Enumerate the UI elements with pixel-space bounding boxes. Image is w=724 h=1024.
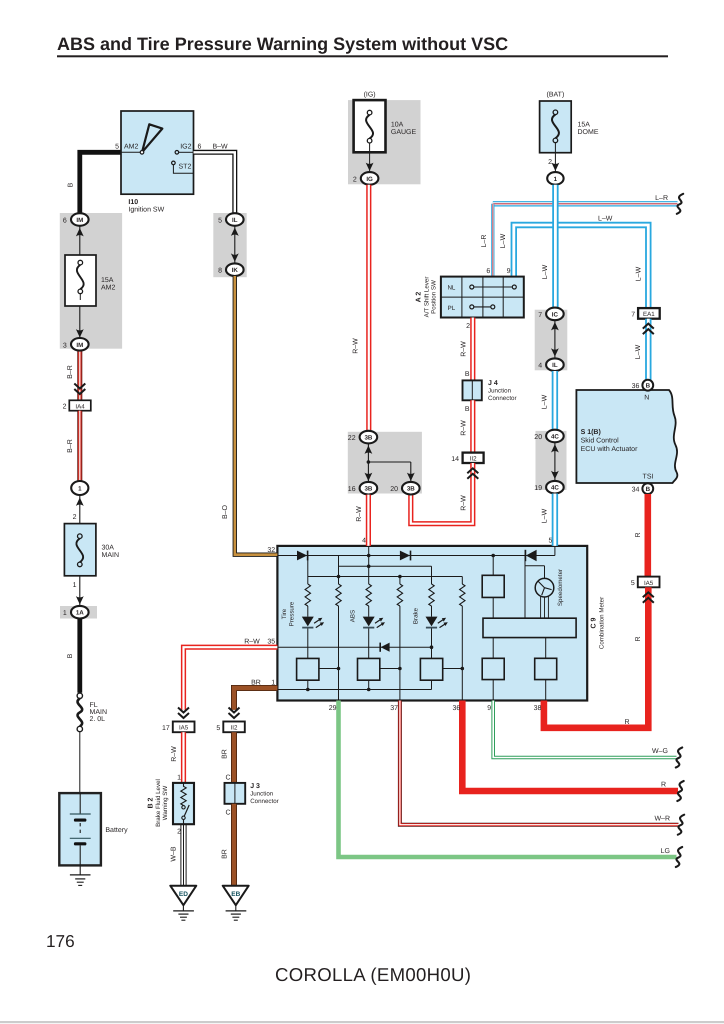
svg-text:I10: I10 [128, 199, 138, 206]
label J3 Junction Connector [250, 783, 279, 805]
svg-text:II2: II2 [470, 456, 477, 463]
svg-text:ST2: ST2 [179, 164, 192, 171]
wire B-R from 3 IM to connector IA4 [77, 351, 82, 401]
driver box ABS [358, 658, 380, 680]
connector oval 8 IK [218, 263, 244, 276]
svg-text:ABS and Tire Pressure Warning: ABS and Tire Pressure Warning System wit… [57, 34, 508, 54]
svg-text:COROLLA (EM00H0U): COROLLA (EM00H0U) [275, 964, 471, 985]
svg-text:R: R [661, 782, 666, 789]
arrowhead down above IG oval [366, 163, 374, 171]
double arrow between IL and IK [231, 226, 239, 264]
svg-text:1: 1 [73, 582, 77, 589]
svg-text:C: C [225, 810, 230, 817]
gray highlight box around 4C connectors [536, 431, 567, 490]
skid control ECU S1(B) body with torn right edge [576, 390, 677, 483]
ABS right column [399, 577, 401, 701]
small box above pin 38 [535, 658, 557, 679]
svg-text:22: 22 [348, 435, 356, 442]
svg-text:DOME: DOME [578, 129, 599, 136]
svg-text:R–W: R–W [352, 338, 359, 354]
wire R thick red from 5 IA5 down left and up to meter pin 38 [544, 587, 648, 728]
svg-text:3B: 3B [364, 486, 372, 493]
wire R-W from IG oval down to 22 3B [366, 185, 371, 431]
svg-text:(IG): (IG) [364, 91, 376, 99]
wire R-W from A2 pin2 down to J4 [470, 318, 475, 381]
brake fluid level warning switch B2 body [173, 783, 194, 824]
svg-text:IG2: IG2 [180, 144, 191, 151]
speedometer output lines [541, 596, 549, 618]
break squiggle R [677, 781, 683, 801]
wire R-W from 17 IA5 down to B2 [181, 732, 186, 783]
diode D2 on top rail [400, 551, 411, 561]
junction connector J3 [225, 783, 246, 804]
svg-text:19: 19 [534, 485, 542, 492]
svg-text:A/T Shift Lever: A/T Shift Lever [424, 277, 431, 318]
connector oval 22 3B [348, 431, 377, 444]
wire BR from 5 II2 down to J3 [231, 732, 237, 783]
meter internal: pin 4 lead-in [368, 546, 370, 556]
fusible link FL MAIN 2.0L symbol [77, 693, 82, 732]
svg-text:B: B [67, 653, 74, 658]
bottom page rule [0, 1021, 724, 1023]
pin 35 internal line with diode D4 [277, 643, 433, 652]
svg-text:R–W: R–W [460, 495, 467, 511]
svg-text:5: 5 [548, 538, 552, 545]
tire pressure branch column [307, 556, 309, 690]
svg-text:2: 2 [466, 323, 470, 330]
connector oval 4 IL [538, 358, 564, 371]
svg-text:EB: EB [231, 891, 240, 898]
svg-text:IM: IM [76, 217, 83, 224]
ground symbol below EB [226, 905, 247, 920]
wire B thick black from ignition SW pin5 to connector IM [80, 152, 121, 213]
label FL MAIN 2. 0L [90, 702, 108, 723]
svg-text:L–W: L–W [635, 344, 642, 359]
svg-text:B: B [646, 383, 651, 390]
svg-text:J 4: J 4 [488, 380, 498, 387]
key lever symbol inside I10 [142, 124, 162, 152]
driver box tire pressure [297, 658, 319, 680]
connector oval 5 IL [218, 213, 244, 226]
svg-text:ABS: ABS [350, 610, 357, 622]
small box right branch [482, 575, 504, 597]
round connector 1 [71, 481, 88, 495]
label J4 Junction Connector [488, 380, 517, 402]
svg-text:BR: BR [222, 749, 229, 759]
svg-text:R–W: R–W [460, 341, 467, 357]
wire R-W from meter pin 35 left and down to 17 IA5 [184, 647, 278, 710]
title underline rule [57, 55, 668, 57]
wire L-W from IL down to 20 4C [552, 371, 558, 430]
wire L-R horizontal from A2 pin6 corner to break [493, 201, 678, 206]
link brake box to right column [443, 667, 464, 671]
double arrow between IC and IL [551, 320, 559, 358]
svg-text:B 2: B 2 [148, 797, 155, 808]
double chevron down above 17 IA5 [178, 708, 189, 719]
svg-text:ED: ED [179, 891, 188, 898]
break squiggle at L-R end [677, 194, 683, 214]
component label A2 rotated [416, 277, 438, 318]
wire thin black connector1 to 30A MAIN [79, 495, 81, 524]
svg-text:Warning SW: Warning SW [162, 786, 169, 821]
break squiggle W-G [676, 748, 682, 768]
double chevron up below EA1 [643, 324, 654, 335]
LED brake [426, 617, 448, 628]
svg-text:BR: BR [222, 849, 229, 859]
meter internal: second rail [339, 556, 432, 585]
svg-text:32: 32 [267, 547, 275, 554]
LED tire pressure [302, 617, 324, 628]
svg-text:3B: 3B [364, 435, 372, 442]
junction dots on third rail [337, 575, 341, 579]
svg-text:II2: II2 [231, 725, 238, 732]
A2 NL contact row [447, 284, 516, 291]
svg-text:R: R [635, 532, 642, 537]
svg-text:NL: NL [447, 284, 455, 291]
wire L-R thin vertical to A2 pin6 [491, 204, 494, 277]
svg-text:W–R: W–R [654, 815, 670, 822]
wire B-W from I10 IG2 to connector IL [194, 152, 235, 213]
A/T shift lever position SW A2 body [441, 277, 524, 318]
label C9 Combination Meter rotated [591, 597, 606, 649]
wire R-W from 14 II2 down left and up to 20 3B [411, 463, 473, 524]
svg-text:6: 6 [486, 268, 490, 275]
connector box 17 IA5 [162, 722, 194, 733]
svg-text:IA5: IA5 [179, 725, 189, 732]
double arrow between 4C pair [551, 442, 559, 481]
arrowhead down above oval 1 [552, 163, 560, 171]
svg-text:L–W: L–W [598, 216, 613, 223]
svg-text:Position SW: Position SW [431, 280, 438, 314]
svg-text:B: B [67, 182, 74, 187]
svg-text:IK: IK [232, 267, 239, 274]
svg-text:1: 1 [63, 610, 67, 617]
svg-text:2. 0L: 2. 0L [90, 716, 106, 723]
svg-text:L–W: L–W [635, 266, 642, 281]
svg-text:B–R: B–R [67, 365, 74, 379]
brake right column [461, 606, 463, 701]
connector oval 20 4C [534, 430, 563, 443]
svg-text:IA5: IA5 [644, 580, 654, 587]
svg-text:R–W: R–W [244, 639, 260, 646]
svg-text:Skid Control: Skid Control [581, 437, 620, 445]
wire L-W from EA1 down to ECU pin 36 [645, 319, 651, 381]
wire LG from meter pin 29 down right to break [339, 701, 677, 858]
svg-text:36: 36 [632, 383, 640, 390]
LED ABS [363, 617, 385, 628]
svg-text:L–W: L–W [542, 264, 549, 279]
right branch column to small box [492, 556, 494, 619]
svg-text:R–W: R–W [460, 420, 467, 436]
svg-text:EA1: EA1 [643, 311, 655, 318]
speedometer feed bracket [525, 556, 545, 619]
connector box 14 II2 [451, 453, 483, 463]
wire BR from J3 down to EB ground [231, 804, 237, 886]
svg-text:IL: IL [552, 362, 558, 369]
component label S1(B) Skid Control ECU with Actuator [581, 428, 638, 453]
svg-text:6: 6 [63, 218, 67, 225]
tire pressure right column [338, 556, 340, 701]
connector box 5 II2 [216, 722, 244, 733]
resistor tire pressure right [336, 584, 341, 606]
A2 PL contact row [448, 305, 495, 312]
svg-text:L–W: L–W [500, 233, 507, 248]
svg-text:Battery: Battery [105, 827, 128, 834]
svg-text:IM: IM [76, 342, 83, 349]
svg-text:Pressure: Pressure [288, 601, 295, 626]
svg-text:37: 37 [390, 705, 398, 712]
connector oval 3 IM [63, 338, 89, 351]
svg-text:GAUGE: GAUGE [391, 129, 417, 136]
pin 9 column below long box [492, 638, 494, 701]
svg-text:10A: 10A [391, 122, 404, 129]
diode D3 on top rail pointing left [525, 550, 536, 561]
wire B thick black 1A to fusible link [77, 619, 82, 693]
wire W-G from meter pin 9 down right to break [493, 701, 676, 758]
svg-text:IG: IG [366, 176, 373, 183]
svg-text:4C: 4C [551, 485, 559, 492]
svg-text:17: 17 [162, 725, 170, 732]
link TP box to right column [319, 667, 340, 671]
connector circle 36 B [632, 380, 654, 391]
connector oval 20 3B [390, 482, 419, 495]
svg-text:L–W: L–W [541, 508, 548, 523]
driver box brake [420, 658, 442, 680]
svg-text:MAIN: MAIN [102, 552, 120, 559]
svg-text:IA4: IA4 [75, 403, 85, 410]
resistor ABS right [397, 584, 402, 606]
wire R thick from meter pin 36 down right to break [462, 701, 678, 792]
ground symbol below ED [173, 905, 194, 920]
connector oval 19 4C [534, 481, 563, 494]
meter internal: bottom rail from pin 1 [277, 688, 431, 692]
svg-text:4: 4 [362, 538, 366, 545]
fuse 15A DOME body [540, 101, 572, 153]
break squiggle LG [676, 847, 682, 867]
svg-text:W–B: W–B [171, 846, 178, 862]
wire thin black IM to AM2 fuse [79, 226, 81, 262]
svg-text:2: 2 [73, 514, 77, 521]
svg-text:1: 1 [554, 176, 558, 183]
svg-text:AM2: AM2 [124, 144, 139, 151]
ABS branch column [368, 556, 370, 690]
meter internal: top rail [277, 555, 555, 557]
svg-text:35: 35 [267, 639, 275, 646]
svg-text:Brake Fluid Level: Brake Fluid Level [155, 779, 162, 827]
svg-text:S 1(B): S 1(B) [581, 428, 601, 436]
svg-text:PL: PL [448, 305, 456, 312]
svg-text:R–W: R–W [171, 746, 178, 762]
combination meter C9 body [277, 546, 587, 701]
double chevron down above 5 II2 [229, 708, 240, 719]
wire B-R from IA4 to round connector 1 [77, 411, 82, 481]
ignition switch I10 body [121, 111, 194, 194]
svg-text:L–R: L–R [481, 235, 488, 248]
gray highlight box around 10A GAUGE fuse [348, 100, 421, 184]
svg-text:R–W: R–W [356, 506, 363, 522]
IG2 contact circle and line [175, 151, 179, 155]
fuse 30A MAIN body [64, 524, 96, 576]
wire L-W from A2 pin9 up right and down to EA1 [514, 225, 649, 308]
pin labels of I10 [115, 144, 201, 171]
svg-text:7: 7 [538, 312, 542, 319]
svg-text:(BAT): (BAT) [547, 91, 565, 99]
small box above pin 9 [482, 658, 504, 679]
battery body [59, 793, 101, 865]
svg-text:34: 34 [632, 487, 640, 494]
connector oval 7 IC [538, 308, 564, 321]
meter internal: pin 5 lead-in [554, 546, 556, 556]
svg-text:176: 176 [46, 931, 75, 951]
wire B-O from IK down and right to meter pin 32 [235, 276, 278, 555]
svg-text:L–W: L–W [541, 394, 548, 409]
connector oval 1 below dome fuse [547, 172, 563, 185]
ST2 contact circle and line [172, 161, 176, 165]
label Tire Pressure rotated [281, 601, 295, 626]
junction dot ABS on second rail [367, 565, 371, 569]
wire R thick red from 34 B down to 5 IA5 [644, 494, 651, 577]
svg-text:1A: 1A [76, 610, 84, 617]
svg-text:1: 1 [78, 486, 82, 493]
svg-text:Tire: Tire [281, 608, 288, 619]
svg-text:MAIN: MAIN [90, 709, 108, 716]
svg-text:J 3: J 3 [250, 783, 260, 790]
svg-text:6: 6 [198, 144, 202, 151]
svg-text:1: 1 [177, 775, 181, 782]
pin 38 column below long box [545, 638, 547, 701]
svg-text:Junction: Junction [250, 791, 274, 798]
junction connector J4 [463, 380, 482, 400]
wire thin black AM2 fuse to connector 3 IM [79, 300, 81, 338]
wire BR from meter pin 1 left and down to 5 II2 [234, 688, 277, 710]
diode D1 on top rail [297, 551, 308, 561]
svg-text:Connector: Connector [250, 798, 279, 805]
double chevron up below 5 IA5 [643, 592, 654, 603]
svg-text:LG: LG [661, 848, 670, 855]
double chevron down above IA4 [74, 384, 85, 395]
svg-text:3: 3 [63, 342, 67, 349]
svg-text:4C: 4C [551, 434, 559, 441]
svg-text:L–R: L–R [655, 195, 668, 202]
svg-text:7: 7 [631, 312, 635, 319]
fuse 10A GAUGE body [354, 100, 386, 152]
connector circle 34 B [632, 483, 654, 494]
wire L-W from 19 4C down to meter pin 5 [552, 494, 558, 546]
fuse 15A AM2 body [65, 255, 96, 306]
svg-text:1: 1 [271, 679, 275, 686]
gray highlight box around 15A AM2 fuse [60, 213, 122, 349]
svg-text:15A: 15A [101, 277, 114, 284]
svg-text:R: R [624, 719, 629, 726]
long internal box [483, 618, 576, 637]
svg-text:TSI: TSI [643, 474, 654, 481]
arrowhead down above 3 IM [76, 329, 84, 337]
svg-text:B–R: B–R [67, 439, 74, 453]
svg-text:4: 4 [538, 363, 542, 370]
ground triangle EB [223, 886, 249, 906]
svg-text:R: R [635, 636, 642, 641]
svg-text:B–O: B–O [222, 504, 229, 519]
wire thin black fusible link to battery [79, 732, 81, 793]
svg-text:30A: 30A [102, 545, 115, 552]
break squiggle W-R [678, 815, 684, 835]
svg-text:2: 2 [63, 404, 67, 411]
meter internal: third rail [308, 577, 463, 585]
connector box 7 EA1 [631, 308, 660, 319]
connector box 2 IA4 [63, 400, 91, 410]
svg-text:Connector: Connector [488, 395, 517, 402]
arrowhead up below IM [76, 228, 84, 236]
svg-text:B: B [646, 486, 651, 493]
svg-text:BR: BR [251, 679, 261, 686]
svg-text:3B: 3B [407, 486, 415, 493]
svg-text:16: 16 [348, 486, 356, 493]
connector box 5 IA5 right [631, 577, 660, 588]
svg-text:2: 2 [353, 176, 357, 183]
ground triangle ED [170, 886, 196, 906]
svg-text:15A: 15A [578, 122, 591, 129]
svg-text:C 9: C 9 [591, 617, 598, 628]
link ABS box to right column [380, 667, 402, 671]
svg-text:29: 29 [329, 705, 337, 712]
brake branch column [431, 606, 433, 690]
svg-text:38: 38 [534, 705, 542, 712]
svg-text:9: 9 [507, 268, 511, 275]
gray highlight box around IC/IL connectors [535, 310, 568, 371]
svg-text:8: 8 [218, 268, 222, 275]
AM2 contact line and pivot [121, 151, 142, 153]
resistor brake left [429, 584, 434, 606]
svg-text:9: 9 [487, 705, 491, 712]
svg-text:5: 5 [218, 218, 222, 225]
svg-text:IC: IC [552, 311, 559, 318]
arrowhead down above 1A [76, 596, 84, 604]
svg-text:AM2: AM2 [101, 285, 116, 292]
component label B2 rotated [148, 779, 170, 827]
svg-text:Ignition SW: Ignition SW [128, 206, 164, 214]
gray highlight box around IL/IK connectors [213, 213, 246, 277]
svg-text:B: B [465, 371, 470, 378]
junction dot pin4 on top rail [367, 554, 371, 558]
svg-text:36: 36 [453, 705, 461, 712]
svg-text:N: N [644, 395, 649, 402]
wire thin black gauge fuse to IG oval [369, 143, 371, 172]
svg-text:ECU with Actuator: ECU with Actuator [581, 445, 638, 453]
svg-text:C: C [225, 775, 230, 782]
svg-text:14: 14 [451, 456, 459, 463]
wire thin black dome fuse to oval 1 [554, 143, 556, 172]
svg-text:20: 20 [534, 434, 542, 441]
svg-text:Speedometer: Speedometer [557, 569, 564, 606]
svg-text:FL: FL [90, 702, 98, 709]
battery ground symbol [70, 865, 91, 885]
svg-text:5: 5 [216, 725, 220, 732]
svg-text:Brake: Brake [412, 607, 419, 624]
svg-text:5: 5 [631, 580, 635, 587]
svg-text:A 2: A 2 [416, 292, 423, 303]
resistor brake right [460, 584, 465, 606]
gray highlight box around 3B connectors [348, 432, 422, 494]
svg-text:Combination Meter: Combination Meter [598, 597, 605, 649]
svg-text:20: 20 [390, 486, 398, 493]
svg-text:Junction: Junction [488, 388, 512, 395]
svg-text:2: 2 [548, 159, 552, 166]
resistor tire pressure left [305, 584, 310, 606]
svg-text:B–W: B–W [213, 144, 229, 151]
svg-text:IL: IL [232, 217, 238, 224]
wire W-B from B2 down to ED ground [181, 824, 186, 886]
connector oval 6 IM [63, 213, 89, 226]
